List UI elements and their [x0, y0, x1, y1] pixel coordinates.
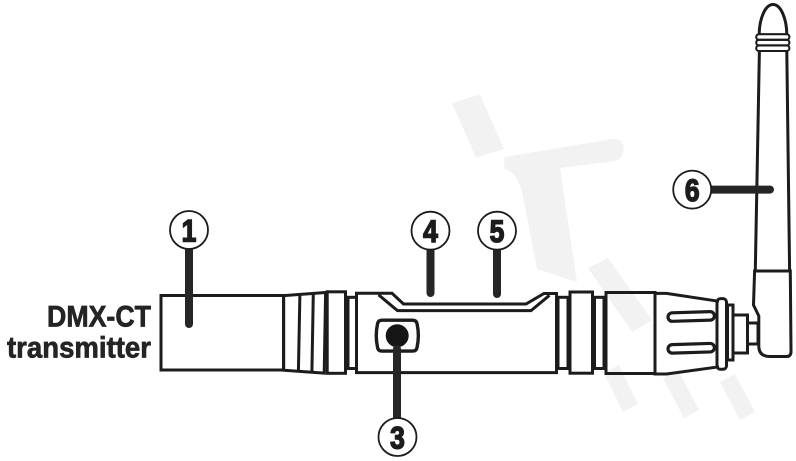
- svg-text:DMX-CT: DMX-CT: [47, 301, 151, 334]
- cap slot top: [668, 311, 715, 321]
- watermark slash: [452, 95, 504, 158]
- device line art: [161, 292, 758, 374]
- antenna shaft: [755, 51, 789, 271]
- svg-text:1: 1: [182, 214, 197, 249]
- button: [386, 324, 409, 347]
- cap slot bottom: [668, 343, 715, 353]
- callout circle 1: [170, 211, 208, 249]
- wide ring left: [327, 292, 345, 374]
- svg-text:5: 5: [490, 215, 505, 250]
- taper ring divider 2: [312, 293, 313, 372]
- leader line 3: [393, 349, 401, 419]
- knurled cap body: [655, 293, 719, 374]
- taper rings outline: [284, 293, 326, 374]
- inset ring left: [348, 297, 357, 368]
- wide ring right: [570, 292, 593, 373]
- callout circle 6: [673, 171, 711, 209]
- watermark stripe e: [604, 365, 638, 412]
- leader line 5: [493, 248, 501, 294]
- button housing: [376, 320, 418, 351]
- antenna ridge rings: [756, 34, 789, 51]
- XLR barrel housing: [161, 296, 284, 371]
- leader line 1: [185, 247, 193, 324]
- watermark stripe g: [720, 374, 755, 420]
- watermark long stripe: [588, 258, 652, 332]
- antenna dome tip: [759, 5, 787, 35]
- bevel inner line: [379, 295, 550, 311]
- callout circle 4: [412, 212, 450, 250]
- antenna base: [754, 271, 792, 357]
- svg-text:4: 4: [423, 215, 438, 250]
- knurled cap rim: [717, 299, 727, 370]
- label DMX-CT transmitter: [7, 301, 151, 365]
- leader line 4: [427, 248, 435, 293]
- watermark bar and leg: [504, 139, 624, 282]
- mid body with top bevel: [357, 293, 557, 372]
- plain cylinder: [606, 293, 655, 374]
- svg-text:3: 3: [390, 421, 405, 456]
- leader line 6: [710, 186, 770, 194]
- connector plate: [728, 305, 734, 360]
- taper ring divider 1: [298, 294, 300, 371]
- callout circle 5: [478, 212, 516, 250]
- inset ring right 1: [558, 297, 568, 368]
- connector stub: [748, 323, 759, 344]
- connector box: [733, 315, 748, 353]
- inset ring right 2: [595, 297, 605, 368]
- svg-text:6: 6: [685, 174, 700, 209]
- watermark: [452, 95, 755, 421]
- watermark stripe f: [663, 370, 699, 418]
- svg-text:transmitter: transmitter: [7, 332, 151, 365]
- callout circle 3: [379, 418, 417, 456]
